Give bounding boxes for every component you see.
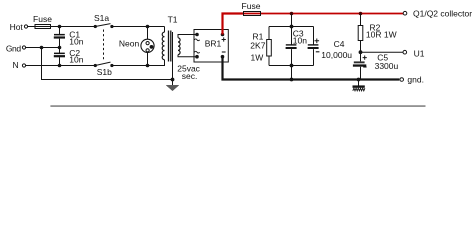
- wire N line: [26, 65, 96, 67]
- node junction neon bottom: [146, 64, 150, 68]
- wire Hot line: [28, 26, 96, 28]
- core: [168, 31, 170, 62]
- node junction rail/C5: [357, 78, 361, 82]
- svg-text:10,000u: 10,000u: [321, 50, 352, 60]
- capacitor C3: [286, 27, 308, 66]
- svg-text:10n: 10n: [69, 37, 83, 47]
- svg-text:Q1/Q2 collector: Q1/Q2 collector: [413, 9, 472, 19]
- wire to U1: [361, 51, 403, 53]
- wire Gnd line: [26, 47, 60, 49]
- wire drop to top bus: [291, 14, 293, 27]
- svg-text:Fuse: Fuse: [33, 14, 52, 24]
- node junction neon top: [146, 25, 150, 29]
- fuse F1: [33, 14, 52, 29]
- capacitor C2: [54, 48, 84, 66]
- resistor R1: [250, 27, 271, 66]
- svg-text:Gnd: Gnd: [6, 43, 22, 53]
- svg-text:10n: 10n: [69, 55, 83, 65]
- node Hot: [10, 22, 28, 32]
- svg-text:10R 1W: 10R 1W: [366, 30, 397, 40]
- svg-text:C4: C4: [334, 39, 345, 49]
- primary winding: [164, 27, 166, 33]
- svg-text:3300u: 3300u: [375, 61, 399, 71]
- svg-text:1W: 1W: [251, 53, 264, 63]
- + top right: [222, 37, 226, 41]
- svg-text:S1b: S1b: [97, 67, 112, 77]
- svg-text:sec.: sec.: [182, 71, 198, 81]
- node Gnd: [6, 43, 26, 53]
- svg-text:Fuse: Fuse: [242, 1, 261, 11]
- node junction top bus: [290, 25, 294, 29]
- node terminal gnd: [400, 74, 424, 84]
- secondary winding: [178, 38, 180, 55]
- switch S1a: [94, 13, 114, 28]
- ground chassis hatched: [353, 80, 365, 91]
- capacitor C5: [353, 52, 399, 79]
- fuse F2: [242, 1, 261, 16]
- node terminal U1: [403, 48, 425, 58]
- capacitor C1: [54, 27, 84, 48]
- node junction red/R2: [359, 12, 363, 16]
- node terminal Q1/Q2: [403, 9, 472, 19]
- switch link dashed: [103, 30, 105, 62]
- svg-text:N: N: [13, 60, 19, 70]
- wire S1a to T1: [112, 26, 165, 28]
- node junction rail/bus: [290, 78, 294, 82]
- wire top bus: [269, 26, 314, 28]
- secondary top lead: [178, 35, 197, 38]
- wire negative rail: [223, 57, 400, 80]
- svg-text:U1: U1: [414, 48, 425, 58]
- secondary bottom lead: [178, 55, 197, 57]
- wire bottom bus: [269, 65, 314, 67]
- wire drop to rail: [291, 66, 293, 80]
- ~ top left: [194, 39, 199, 41]
- wire S1b to T1 primary bottom: [112, 60, 165, 66]
- svg-text:BR1: BR1: [205, 39, 222, 49]
- wire earth drop: [42, 48, 173, 80]
- svg-text:10n: 10n: [293, 36, 307, 46]
- node junction red/R1C3C4: [290, 12, 294, 16]
- label 25vac sec.: [177, 63, 200, 81]
- ~ bottom left: [194, 51, 199, 53]
- node junction earth/screen: [171, 78, 175, 82]
- node junction R2/C5/U1: [359, 50, 363, 54]
- node junction C2 bottom: [58, 64, 62, 68]
- neon lamp: [119, 27, 154, 66]
- screen/earth lead: [172, 32, 174, 80]
- wire red positive rail: [223, 14, 244, 35]
- node junction earth: [40, 46, 44, 50]
- svg-text:T1: T1: [168, 14, 178, 24]
- node junction C1 top: [58, 25, 62, 29]
- node junction bottom bus: [290, 64, 294, 68]
- transformer T1: [162, 14, 197, 61]
- minus bottom right: [222, 51, 226, 53]
- resistor R2: [358, 14, 396, 53]
- separator line: [50, 105, 425, 107]
- svg-text:gnd.: gnd.: [407, 74, 424, 84]
- switch S1b: [94, 62, 114, 77]
- svg-text:Hot: Hot: [10, 22, 24, 32]
- svg-text:2K7: 2K7: [250, 40, 265, 50]
- svg-text:S1a: S1a: [94, 13, 109, 23]
- capacitor C4: [308, 27, 353, 66]
- node N: [13, 60, 26, 70]
- node junction C1/C2: [58, 46, 62, 50]
- ground chassis triangle: [166, 80, 179, 91]
- svg-text:Neon: Neon: [119, 39, 140, 49]
- bridge rectifier BR1: [194, 30, 228, 63]
